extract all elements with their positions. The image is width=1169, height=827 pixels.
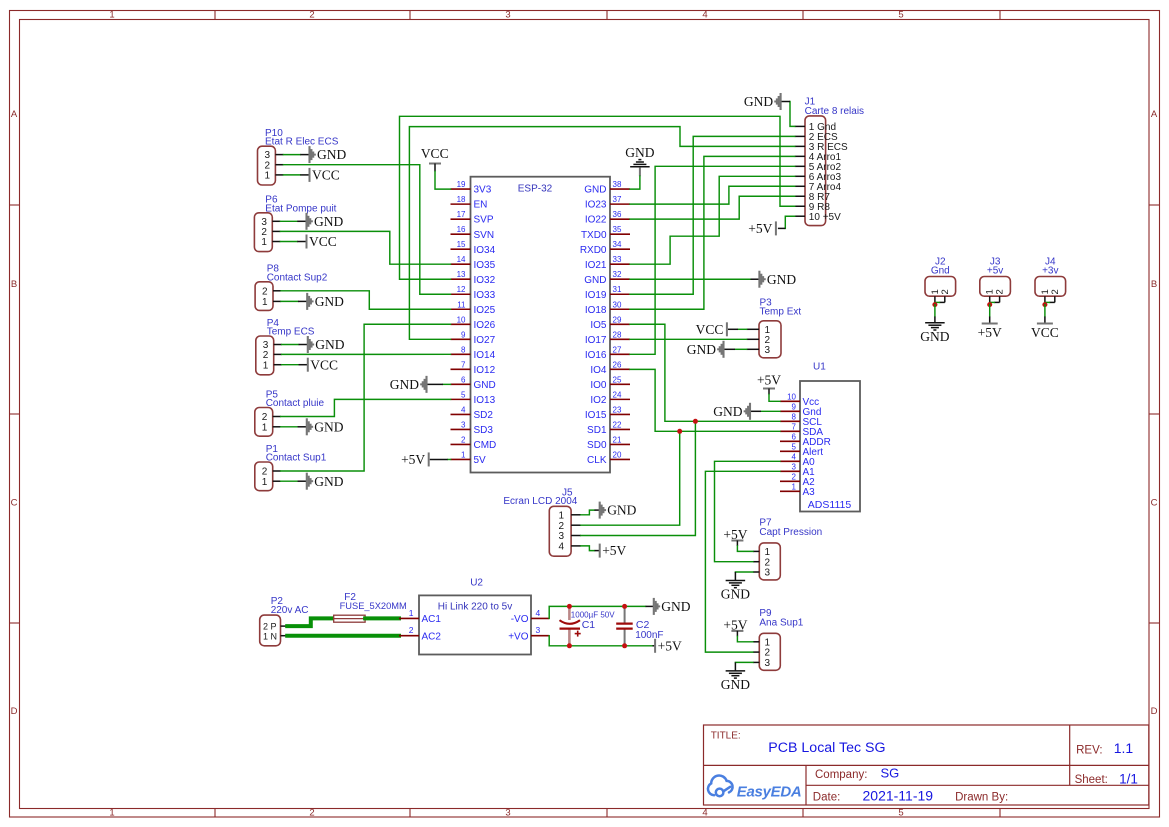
- ESP-32 right pin 31 IO19: [610, 293, 630, 295]
- junction C2 top: [622, 604, 627, 609]
- connector P9 Ana Sup1: [759, 633, 780, 670]
- wire P1 pin2 to ESP IO26: [281, 324, 451, 471]
- svg-text:SVP: SVP: [474, 215, 494, 226]
- wire P9 pin2: [705, 471, 780, 652]
- connector J1 Carte 8 relais: [805, 116, 826, 226]
- ESP-32 right pin 23 IO15: [610, 413, 630, 415]
- svg-text:Gnd: Gnd: [931, 266, 950, 277]
- svg-text:Etat R Elec ECS: Etat R Elec ECS: [265, 137, 339, 148]
- svg-text:3: 3: [765, 568, 771, 579]
- ESP-32 right pin 32 GND: [610, 278, 630, 280]
- power flag VCC at P3 pin1: [738, 328, 747, 330]
- svg-text:+5V: +5V: [978, 325, 1002, 340]
- svg-text:SD0: SD0: [587, 440, 607, 451]
- svg-text:2: 2: [409, 625, 414, 635]
- svg-text:VCC: VCC: [696, 322, 724, 337]
- svg-text:GND: GND: [390, 377, 419, 392]
- ESP-32 left pin 13 IO32: [451, 278, 471, 280]
- svg-text:3: 3: [461, 420, 466, 429]
- svg-text:IO16: IO16: [585, 350, 607, 361]
- svg-text:TXD0: TXD0: [581, 230, 607, 241]
- wire P6 pin2 to ESP IO35: [280, 231, 450, 264]
- wire ESP GND pin32 to GND flag: [630, 278, 751, 280]
- svg-text:GND: GND: [317, 147, 346, 162]
- power flag +5V at J1 pin10: [785, 216, 794, 228]
- IC U2 Hi Link 220 to 5v body: [419, 595, 531, 654]
- svg-text:23: 23: [613, 405, 622, 414]
- svg-text:GND: GND: [314, 214, 343, 229]
- svg-text:AC2: AC2: [422, 631, 442, 642]
- IC U1 ADS1115 body: [800, 381, 860, 512]
- svg-text:GND: GND: [474, 380, 496, 391]
- wire P6 pin3 to GND: [280, 220, 297, 222]
- svg-text:SD3: SD3: [474, 425, 494, 436]
- ESP-32 left pin 16 SVN: [451, 233, 471, 235]
- wire P10 pin3 to GND: [284, 154, 301, 156]
- svg-text:33: 33: [613, 255, 622, 264]
- svg-text:A: A: [1151, 109, 1158, 120]
- J2 pin stems: [934, 296, 936, 306]
- svg-text:3: 3: [505, 808, 510, 819]
- ESP-32 right pin 36 IO22: [610, 218, 630, 220]
- U2 pin 1 AC1: [399, 617, 419, 619]
- wire ESP IO17 to P3 pin2: [630, 338, 747, 340]
- junction C1 bottom: [567, 643, 572, 648]
- svg-text:GND: GND: [661, 599, 690, 614]
- wire P7 pin2: [715, 461, 781, 561]
- wire ESP IO21 to J1 pin6 Arro3: [630, 176, 795, 264]
- svg-text:U1: U1: [813, 362, 826, 373]
- svg-text:1: 1: [409, 608, 414, 618]
- power flag +5V at ESP pin1: [448, 458, 451, 460]
- U1 pin 7 SDA: [780, 430, 800, 432]
- ground flag GND at P3 pin3: [735, 348, 747, 350]
- ESP-32 left pin 3 SD3: [451, 428, 471, 430]
- wire P4 pin3 to GND: [282, 344, 299, 346]
- svg-text:PCB Local Tec SG: PCB Local Tec SG: [768, 740, 885, 756]
- svg-text:IO32: IO32: [474, 275, 496, 286]
- svg-text:IO19: IO19: [585, 290, 607, 301]
- svg-text:3V3: 3V3: [474, 185, 492, 196]
- wire ESP IO23 to J1 pin7 Arro4: [630, 186, 795, 204]
- svg-text:+5V: +5V: [602, 543, 626, 558]
- ESP-32 left pin 11 IO25: [451, 308, 471, 310]
- svg-text:1: 1: [109, 808, 114, 819]
- wire P8 pin1 to GND: [281, 300, 298, 302]
- ground flag GND at P6 pin3: [307, 213, 312, 230]
- svg-text:GND: GND: [315, 337, 344, 352]
- svg-text:IO18: IO18: [585, 305, 607, 316]
- ground flag GND at P10 pin3: [310, 146, 315, 163]
- svg-text:28: 28: [613, 330, 622, 339]
- ESP-32 right pin 37 IO23: [610, 203, 630, 205]
- svg-text:5: 5: [792, 443, 797, 452]
- ground flag GND at J1 pin1: [790, 102, 795, 127]
- svg-text:Sheet:: Sheet:: [1075, 774, 1108, 786]
- wire ESP IO5 to U1 SCL: [630, 324, 780, 421]
- svg-text:21: 21: [613, 435, 622, 444]
- svg-text:+VO: +VO: [508, 631, 529, 642]
- svg-text:A3: A3: [803, 487, 816, 498]
- ESP-32 left pin 18 EN: [451, 203, 471, 205]
- wire P10 pin2 to ESP IO33: [284, 165, 451, 295]
- connector P5 Contact pluie: [255, 408, 273, 437]
- svg-text:6: 6: [461, 375, 466, 384]
- power flag below J3: [989, 317, 991, 324]
- ground flag GND at J5 pin1: [600, 502, 605, 519]
- svg-text:IO14: IO14: [474, 350, 496, 361]
- ESP-32 left pin 14 IO35: [451, 263, 471, 265]
- svg-text:Drawn By:: Drawn By:: [955, 791, 1008, 803]
- ground flag GND at P4 pin3: [308, 336, 313, 353]
- svg-text:+5V: +5V: [401, 452, 425, 467]
- svg-text:+5v: +5v: [987, 266, 1003, 277]
- svg-text:6: 6: [792, 433, 797, 442]
- svg-text:22: 22: [613, 420, 622, 429]
- junction J2: [932, 302, 937, 307]
- U1 pin 6 ADDR: [780, 440, 800, 442]
- svg-text:2: 2: [995, 289, 1006, 294]
- svg-text:SVN: SVN: [474, 230, 495, 241]
- svg-text:B: B: [1151, 279, 1157, 290]
- svg-text:GND: GND: [721, 587, 750, 602]
- svg-text:RXD0: RXD0: [580, 245, 607, 256]
- svg-text:34: 34: [613, 240, 622, 249]
- junction J3: [987, 302, 992, 307]
- svg-text:10: 10: [457, 315, 466, 324]
- svg-text:IO27: IO27: [474, 335, 496, 346]
- ESP-32 right pin 24 IO2: [610, 398, 630, 400]
- svg-text:EasyEDA: EasyEDA: [737, 783, 802, 800]
- svg-text:5: 5: [898, 10, 903, 21]
- ESP-32 right pin 21 SD0: [610, 443, 630, 445]
- svg-text:4: 4: [792, 453, 797, 462]
- ESP-32 left pin 10 IO26: [451, 323, 471, 325]
- svg-text:4: 4: [702, 808, 707, 819]
- svg-text:IO0: IO0: [590, 380, 607, 391]
- svg-text:1: 1: [262, 422, 268, 433]
- svg-text:VCC: VCC: [1031, 325, 1059, 340]
- wire P4 pin1 to VCC: [282, 364, 299, 366]
- ESP-32 right pin 35 TXD0: [610, 233, 630, 235]
- svg-text:27: 27: [613, 345, 622, 354]
- ground flag GND at P5 pin1: [307, 418, 312, 435]
- ESP-32 right pin 33 IO21: [610, 263, 630, 265]
- svg-text:GND: GND: [721, 677, 750, 692]
- U1 pin 8 SCL: [780, 420, 800, 422]
- svg-text:GND: GND: [607, 503, 636, 518]
- ESP-32 left pin 7 IO12: [451, 368, 471, 370]
- svg-text:TITLE:: TITLE:: [711, 731, 741, 742]
- svg-text:VCC: VCC: [421, 146, 449, 161]
- svg-text:19: 19: [457, 180, 466, 189]
- ESP-32 left pin 19 3V3: [451, 188, 471, 190]
- svg-text:4: 4: [558, 542, 564, 553]
- svg-text:IO22: IO22: [585, 215, 607, 226]
- connector P2 220v AC: [260, 615, 281, 646]
- svg-text:IO21: IO21: [585, 260, 607, 271]
- svg-text:FUSE_5X20MM: FUSE_5X20MM: [340, 601, 407, 611]
- svg-text:IO23: IO23: [585, 200, 607, 211]
- wire P5 pin2 to ESP IO13: [281, 399, 451, 416]
- wire J5 pin4 to +5V: [581, 546, 595, 551]
- svg-text:3: 3: [536, 625, 541, 635]
- svg-text:17: 17: [457, 210, 466, 219]
- ESP-32 left pin 12 IO33: [451, 293, 471, 295]
- svg-text:16: 16: [457, 225, 466, 234]
- U1 pin 5 Alert: [780, 450, 800, 452]
- svg-text:GND: GND: [625, 145, 654, 160]
- svg-text:GND: GND: [744, 94, 773, 109]
- ESP-32 right pin 38 GND: [610, 188, 630, 190]
- wire ESP GND pin38 to earth: [630, 176, 640, 189]
- svg-text:18: 18: [457, 195, 466, 204]
- svg-text:4: 4: [536, 608, 541, 618]
- wire P10 pin1 to VCC: [284, 174, 301, 176]
- connector P6 Etat Pompe puit: [254, 213, 272, 252]
- svg-text:15: 15: [457, 240, 466, 249]
- svg-text:2 P: 2 P: [263, 622, 277, 632]
- svg-text:1: 1: [558, 510, 564, 521]
- ESP-32 left pin 2 CMD: [451, 443, 471, 445]
- power flag +5V at J5 pin4: [599, 544, 601, 558]
- wire ESP IO27 to J1 pin3 R ECS: [409, 127, 794, 340]
- ESP-32 right pin 26 IO4: [610, 368, 630, 370]
- ESP-32 right pin 30 IO18: [610, 308, 630, 310]
- ESP-32 left pin 15 IO34: [451, 248, 471, 250]
- svg-text:9: 9: [792, 403, 797, 412]
- svg-text:B: B: [11, 279, 17, 290]
- U2 pin 4 -VO: [531, 617, 549, 619]
- svg-text:EN: EN: [474, 200, 488, 211]
- svg-text:8: 8: [461, 345, 466, 354]
- svg-text:1: 1: [264, 171, 270, 182]
- svg-text:VCC: VCC: [309, 234, 337, 249]
- svg-text:1 N: 1 N: [263, 631, 277, 641]
- svg-text:A: A: [11, 109, 18, 120]
- svg-text:IO34: IO34: [474, 245, 496, 256]
- svg-text:9: 9: [461, 330, 466, 339]
- svg-text:10 +5V: 10 +5V: [809, 212, 841, 223]
- ESP-32 right pin 29 IO5: [610, 323, 630, 325]
- svg-text:1000µF 50V: 1000µF 50V: [571, 610, 615, 619]
- wire P2 pin1 N to U2 AC2: [287, 634, 399, 638]
- svg-text:VCC: VCC: [310, 357, 338, 372]
- wire J5 pin2 to SDA net: [581, 431, 680, 525]
- ESP-32 right pin 20 CLK: [610, 458, 630, 460]
- svg-text:1: 1: [109, 10, 114, 21]
- power flag VCC at P6 pin1: [306, 235, 308, 249]
- svg-text:GND: GND: [584, 185, 606, 196]
- svg-text:38: 38: [613, 180, 622, 189]
- svg-text:35: 35: [613, 225, 622, 234]
- svg-text:Contact Sup2: Contact Sup2: [267, 272, 328, 283]
- wire ESP IO4 to U1 SDA: [630, 369, 780, 431]
- junction C2 bottom: [622, 643, 627, 648]
- svg-text:U2: U2: [470, 577, 483, 588]
- junction SDA net: [677, 429, 682, 434]
- svg-text:VCC: VCC: [312, 168, 340, 183]
- wire U2 +VO to +5V rail: [549, 636, 652, 646]
- svg-text:+3v: +3v: [1042, 266, 1058, 277]
- U2 pin 2 AC2: [399, 635, 419, 637]
- wire P4 pin2 to ESP IO14: [282, 353, 451, 355]
- svg-text:13: 13: [457, 270, 466, 279]
- connector P10 Etat R Elec ECS: [258, 146, 276, 185]
- svg-text:GND: GND: [584, 275, 606, 286]
- ground flag GND at P1 pin1: [307, 473, 312, 490]
- U1 pin 4 A0: [780, 460, 800, 462]
- ground earth GND at P9 pin3: [735, 661, 753, 663]
- svg-text:32: 32: [613, 270, 622, 279]
- svg-text:IO35: IO35: [474, 260, 496, 271]
- U2 pin 3 +VO: [531, 635, 549, 637]
- U1 pin 10 Vcc: [780, 400, 800, 402]
- wire ESP IO32 to J1 pin9 R8: [400, 116, 795, 279]
- wire ESP IO16 to J1 pin5 Arro2: [630, 166, 795, 354]
- ground flag GND at ESP pin32: [759, 271, 764, 288]
- svg-text:2: 2: [309, 808, 314, 819]
- svg-text:Hi Link 220 to 5v: Hi Link 220 to 5v: [438, 602, 513, 613]
- ESP-32 left pin 6 GND: [451, 383, 471, 385]
- svg-text:31: 31: [613, 285, 622, 294]
- svg-text:5: 5: [898, 808, 903, 819]
- ground flag GND at output rail: [646, 605, 654, 607]
- svg-text:Ana Sup1: Ana Sup1: [759, 617, 803, 628]
- svg-text:12: 12: [457, 285, 466, 294]
- wire fuse F2 to U2 AC1: [365, 616, 399, 620]
- ESP-32 right pin 27 IO16: [610, 353, 630, 355]
- wire P6 pin1 to VCC: [280, 241, 297, 243]
- power flag +5V at output rail: [653, 645, 656, 647]
- svg-text:+5V: +5V: [748, 221, 772, 236]
- svg-text:SD1: SD1: [587, 425, 607, 436]
- ESP-32 left pin 5 IO13: [451, 398, 471, 400]
- svg-text:GND: GND: [687, 342, 716, 357]
- svg-text:2: 2: [1050, 289, 1061, 294]
- svg-text:1: 1: [263, 360, 269, 371]
- svg-text:IO12: IO12: [474, 365, 496, 376]
- svg-text:IO26: IO26: [474, 320, 496, 331]
- svg-text:1: 1: [792, 483, 797, 492]
- ground flag GND at ESP pin6: [443, 383, 451, 385]
- IC U3 ESP-32 module body: [471, 177, 611, 473]
- svg-text:IO17: IO17: [585, 335, 607, 346]
- svg-text:IO13: IO13: [474, 395, 496, 406]
- junction J4: [1042, 302, 1047, 307]
- ESP-32 left pin 4 SD2: [451, 413, 471, 415]
- capacitor C2 100nF: [624, 606, 626, 623]
- wire ESP IO18 to J1 pin4 Arro1: [630, 156, 795, 309]
- svg-text:2: 2: [461, 435, 466, 444]
- power flag VCC at P4 pin1: [307, 358, 309, 372]
- svg-text:D: D: [1151, 706, 1158, 717]
- svg-text:SD2: SD2: [474, 410, 494, 421]
- ESP-32 left pin 9 IO27: [451, 338, 471, 340]
- ESP-32 left pin 8 IO14: [451, 353, 471, 355]
- svg-text:4: 4: [461, 405, 466, 414]
- svg-text:Date:: Date:: [813, 791, 841, 803]
- svg-text:IO2: IO2: [590, 395, 607, 406]
- connector J2 Gnd: [925, 277, 956, 297]
- svg-text:Company:: Company:: [815, 769, 867, 781]
- svg-text:3: 3: [558, 531, 564, 542]
- svg-text:2: 2: [262, 286, 268, 297]
- wire VCC to ESP 3V3: [435, 172, 451, 190]
- svg-text:C2: C2: [636, 619, 650, 631]
- svg-text:3: 3: [505, 10, 510, 21]
- svg-text:4: 4: [702, 10, 707, 21]
- svg-text:ADS1115: ADS1115: [808, 499, 852, 511]
- svg-text:Temp Ext: Temp Ext: [760, 307, 802, 318]
- svg-text:20: 20: [613, 450, 622, 459]
- wire ESP IO19 to J1 pin2 ECS: [630, 136, 795, 294]
- svg-text:1: 1: [262, 477, 268, 488]
- svg-text:2: 2: [792, 473, 797, 482]
- svg-text:11: 11: [457, 300, 466, 309]
- capacitor C1 1000uF 50V: [568, 606, 571, 620]
- junction SCL net: [693, 419, 698, 424]
- wire ESP IO22 to J1 pin8 R7: [630, 196, 795, 219]
- svg-text:2021-11-19: 2021-11-19: [863, 788, 934, 804]
- svg-text:IO15: IO15: [585, 410, 607, 421]
- svg-text:IO5: IO5: [590, 320, 607, 331]
- svg-text:Capt Pression: Capt Pression: [759, 527, 822, 538]
- svg-text:30: 30: [613, 300, 622, 309]
- svg-text:D: D: [11, 706, 18, 717]
- svg-text:C1: C1: [582, 619, 596, 631]
- svg-text:GND: GND: [315, 294, 344, 309]
- svg-text:ESP-32: ESP-32: [518, 184, 553, 195]
- connector J3 +5v: [980, 277, 1011, 297]
- J4 pin stems: [1044, 296, 1046, 306]
- svg-text:29: 29: [613, 315, 622, 324]
- svg-text:C: C: [11, 498, 18, 509]
- svg-text:GND: GND: [920, 329, 949, 344]
- connector P3 Temp Ext: [759, 321, 781, 358]
- svg-text:+5V: +5V: [658, 638, 682, 653]
- svg-text:-VO: -VO: [511, 614, 529, 625]
- ESP-32 left pin 17 SVP: [451, 218, 471, 220]
- svg-text:1: 1: [261, 237, 267, 248]
- wire J5 pin3 to SCL net: [581, 421, 696, 535]
- power flag VCC at P10 pin1: [309, 168, 311, 182]
- connector P8 Contact Sup2: [255, 282, 273, 311]
- svg-text:1/1: 1/1: [1119, 771, 1138, 786]
- junction C1 top: [567, 604, 572, 609]
- svg-text:Contact Sup1: Contact Sup1: [266, 453, 327, 464]
- U1 pin 3 A1: [780, 470, 800, 472]
- svg-text:3: 3: [792, 463, 797, 472]
- svg-text:8: 8: [792, 413, 797, 422]
- svg-text:36: 36: [613, 210, 622, 219]
- svg-text:CMD: CMD: [474, 440, 497, 451]
- svg-text:10: 10: [787, 393, 796, 402]
- ground flag GND at U1 pin9: [761, 410, 780, 412]
- ESP-32 right pin 22 SD1: [610, 428, 630, 430]
- wire P1 pin1 to GND: [281, 480, 298, 482]
- svg-text:1: 1: [262, 297, 268, 308]
- svg-text:Etat Pompe puit: Etat Pompe puit: [265, 203, 336, 214]
- svg-text:IO33: IO33: [474, 290, 496, 301]
- wire J5 pin1 to GND: [581, 510, 595, 515]
- connector J5 Ecran LCD 2004: [549, 506, 571, 556]
- wire P5 pin1 to GND: [281, 426, 298, 428]
- connector P1 Contact Sup1: [255, 462, 273, 491]
- U1 pin 1 A3: [780, 490, 800, 492]
- title block: [704, 725, 1149, 805]
- connector P4 Temp ECS: [256, 336, 274, 375]
